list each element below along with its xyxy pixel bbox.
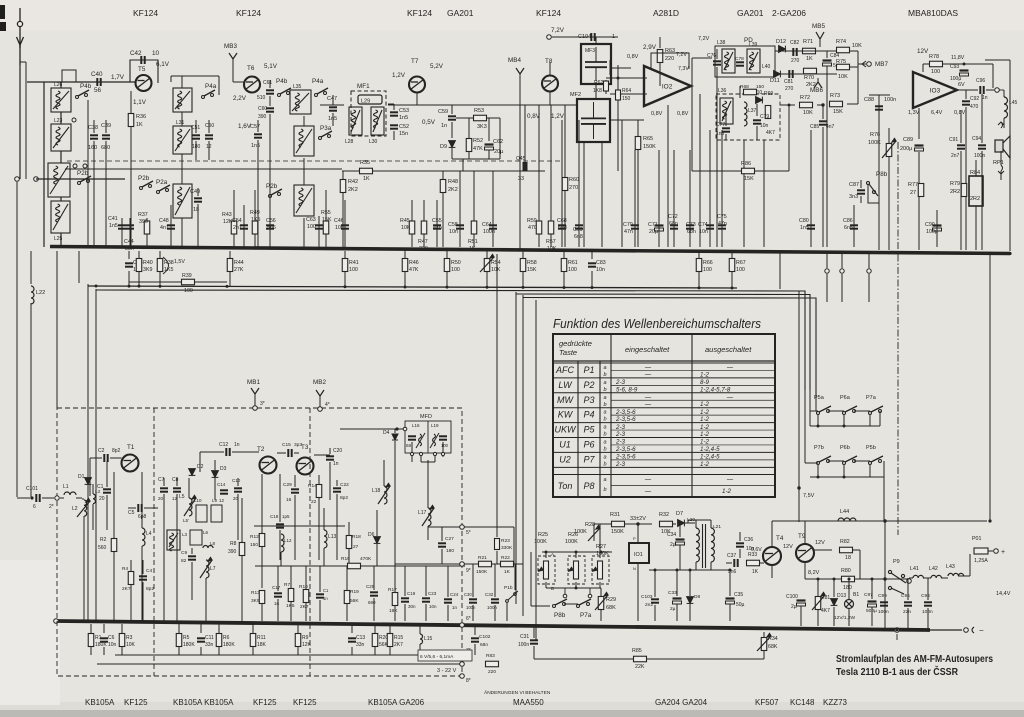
svg-text:2K7: 2K7 — [122, 586, 131, 592]
svg-text:C61: C61 — [263, 80, 272, 86]
capacitor C1 — [103, 489, 111, 492]
svg-text:180: 180 — [446, 548, 454, 554]
resistor R12 — [259, 534, 265, 547]
svg-text:P7: P7 — [583, 454, 595, 464]
svg-text:33: 33 — [518, 176, 524, 182]
svg-text:D7: D7 — [676, 511, 683, 517]
trimmer circles — [72, 118, 76, 122]
svg-text:C9: C9 — [181, 550, 187, 556]
svg-text:4K7: 4K7 — [766, 130, 775, 136]
wires ratio det — [739, 86, 741, 98]
capacitor C51 — [192, 135, 200, 138]
svg-text:C87: C87 — [849, 182, 859, 188]
svg-text:C99: C99 — [878, 593, 887, 599]
svg-text:5-6, 8-9: 5-6, 8-9 — [616, 386, 638, 393]
svg-text:—: — — [644, 394, 652, 401]
coil L3 box — [167, 530, 180, 551]
svg-text:R44: R44 — [234, 260, 244, 266]
capacitor C62 — [488, 118, 490, 141]
svg-text:100K: 100K — [868, 140, 881, 146]
svg-text:C100: C100 — [786, 594, 798, 600]
svg-text:R42: R42 — [348, 179, 358, 185]
coil L4 — [141, 472, 143, 528]
svg-text:P2b: P2b — [266, 183, 278, 190]
svg-text:2*: 2* — [49, 504, 54, 510]
svg-text:L1: L1 — [63, 484, 69, 490]
svg-text:C72: C72 — [668, 214, 678, 220]
svg-text:22n: 22n — [903, 609, 911, 615]
svg-text:a: a — [603, 477, 606, 483]
resistor R42 — [342, 171, 344, 247]
capacitor C59 — [451, 105, 453, 114]
svg-text:T1: T1 — [127, 444, 135, 451]
svg-text:P7a: P7a — [580, 612, 592, 619]
svg-text:5,1V: 5,1V — [264, 63, 278, 70]
svg-text:1-2: 1-2 — [700, 431, 710, 438]
svg-text:R23: R23 — [501, 538, 510, 544]
svg-text:100: 100 — [184, 288, 193, 294]
resistor R2 — [113, 472, 115, 538]
coil L38 box — [722, 49, 735, 73]
capacitor C102 — [474, 624, 476, 635]
svg-text:a: a — [603, 380, 606, 386]
svg-text:100: 100 — [568, 267, 577, 273]
MFD bottom pins — [411, 442, 413, 462]
coil L43 — [941, 577, 948, 579]
svg-text:C74: C74 — [698, 222, 708, 228]
wire 5* rail — [428, 526, 514, 528]
svg-text:R25: R25 — [538, 532, 548, 538]
svg-text:3n3: 3n3 — [849, 194, 858, 200]
svg-text:100n: 100n — [483, 229, 495, 235]
svg-text:C2: C2 — [98, 448, 105, 454]
op-amp IO2 A281D — [644, 66, 691, 106]
svg-text:L2: L2 — [72, 506, 78, 512]
resistor R86 — [692, 170, 789, 172]
resistor R7 — [288, 589, 294, 602]
svg-text:KF124: KF124 — [236, 8, 261, 18]
resistor R6 — [218, 624, 220, 633]
svg-text:P3: P3 — [583, 395, 594, 405]
thermal coupling arc — [163, 257, 169, 274]
svg-text:IO3: IO3 — [930, 88, 941, 95]
wire MF2 out — [610, 119, 644, 121]
svg-text:0,5V: 0,5V — [422, 119, 436, 126]
diode D3 — [212, 471, 219, 478]
upper ground bus — [50, 247, 1010, 254]
coil L40 box — [747, 49, 760, 73]
wire antenna down — [19, 65, 21, 179]
svg-text:10K: 10K — [852, 43, 862, 49]
capacitor C31 — [533, 626, 535, 638]
wire 9* rail — [395, 563, 523, 565]
svg-text:D9: D9 — [440, 144, 447, 150]
svg-text:T7: T7 — [411, 58, 419, 65]
capacitor C12 — [226, 448, 229, 456]
svg-text:180K: 180K — [183, 642, 195, 648]
svg-text:2µ: 2µ — [791, 604, 797, 610]
svg-text:R57: R57 — [546, 239, 556, 245]
svg-text:C52: C52 — [399, 124, 409, 130]
svg-text:R12: R12 — [250, 534, 259, 540]
svg-text:1n: 1n — [333, 461, 339, 467]
svg-text:b: b — [603, 417, 606, 423]
svg-text:P4b: P4b — [80, 83, 92, 90]
svg-text:160: 160 — [88, 145, 97, 151]
svg-text:R7: R7 — [284, 582, 290, 588]
svg-text:C19: C19 — [407, 591, 416, 596]
svg-text:180K: 180K — [95, 642, 107, 648]
svg-text:MB1: MB1 — [247, 379, 260, 386]
transistor T8 — [542, 76, 558, 92]
svg-text:C1: C1 — [323, 588, 329, 593]
svg-text:100: 100 — [307, 224, 316, 230]
svg-text:12V: 12V — [783, 544, 793, 550]
svg-text:C92: C92 — [970, 96, 979, 102]
svg-text:R27: R27 — [596, 544, 606, 550]
svg-text:220: 220 — [665, 56, 674, 62]
resistor R13 — [259, 591, 265, 604]
capacitor C83 — [591, 251, 593, 259]
svg-text:T8: T8 — [545, 58, 553, 65]
svg-text:A281D: A281D — [653, 8, 679, 18]
svg-text:100: 100 — [349, 267, 358, 273]
svg-text:C73: C73 — [686, 222, 696, 228]
coil L30 box — [371, 107, 384, 135]
svg-text:KC148: KC148 — [790, 698, 815, 707]
capacitor C37 — [734, 559, 737, 567]
connector MB7 — [867, 62, 872, 67]
svg-text:47K: 47K — [409, 267, 419, 273]
svg-text:C25: C25 — [366, 584, 375, 589]
svg-text:R36: R36 — [136, 114, 146, 120]
svg-text:eingeschaltet: eingeschaltet — [625, 345, 670, 354]
svg-text:a: a — [603, 410, 606, 416]
resistor R85 — [634, 656, 647, 662]
svg-text:P6b: P6b — [840, 445, 850, 451]
resistor R19 — [344, 591, 350, 604]
svg-text:R74: R74 — [836, 39, 846, 45]
svg-text:50µ: 50µ — [736, 602, 745, 608]
capacitor C20 — [326, 456, 334, 459]
svg-text:L13: L13 — [328, 534, 337, 540]
svg-text:12V: 12V — [917, 48, 929, 55]
resistor R69 — [765, 106, 771, 119]
capacitor C5 — [138, 504, 141, 512]
svg-text:C63: C63 — [306, 217, 316, 223]
svg-text:C15: C15 — [282, 442, 291, 448]
svg-text:MBA810DAS: MBA810DAS — [908, 8, 958, 18]
svg-text:10n: 10n — [596, 267, 605, 273]
resistor R43 — [233, 190, 235, 247]
capacitor C44 — [129, 218, 131, 247]
svg-text:1K: 1K — [504, 569, 511, 575]
svg-text:C38: C38 — [88, 125, 98, 131]
resistor R35 — [360, 168, 373, 174]
main vertical x885 — [884, 521, 886, 630]
coil L44 — [838, 518, 856, 521]
wire line y171 agc — [65, 168, 342, 170]
svg-text:15K: 15K — [744, 176, 754, 182]
svg-text:1,1V: 1,1V — [133, 99, 147, 106]
table Ton row — [553, 466, 775, 468]
svg-text:N: N — [633, 566, 636, 571]
wire io2 in — [606, 77, 647, 79]
svg-text:R29: R29 — [606, 597, 616, 603]
capacitor C18 — [276, 524, 284, 527]
svg-text:68K: 68K — [606, 605, 616, 611]
svg-text:KB105A KB105A: KB105A KB105A — [173, 698, 234, 707]
coils L10 L9 — [196, 505, 207, 522]
svg-text:22K: 22K — [635, 664, 645, 670]
svg-text:KB105A: KB105A — [85, 698, 115, 707]
svg-text:KF125: KF125 — [124, 698, 148, 707]
svg-text:R49: R49 — [250, 210, 260, 216]
svg-text:1-2: 1-2 — [700, 439, 710, 446]
svg-text:R66: R66 — [703, 260, 713, 266]
svg-text:C42: C42 — [130, 50, 142, 57]
resistor R38 — [159, 251, 161, 259]
svg-text:Ton: Ton — [558, 481, 573, 491]
resistor R59 — [538, 105, 540, 247]
svg-text:b: b — [603, 432, 606, 438]
bottom ground bus — [56, 621, 930, 630]
svg-text:—: — — [726, 476, 734, 483]
resistor R60 — [564, 105, 566, 247]
coil L22 — [30, 251, 32, 284]
svg-text:P7b: P7b — [814, 445, 824, 451]
svg-text:P9: P9 — [893, 559, 900, 565]
detector loop bottom — [452, 158, 500, 160]
svg-text:P4: P4 — [583, 410, 594, 420]
capacitor C36 — [736, 543, 744, 546]
svg-text:MAA550: MAA550 — [513, 698, 544, 707]
resistor R71 — [803, 48, 816, 54]
svg-text:U1: U1 — [559, 440, 571, 450]
svg-text:—: — — [644, 401, 652, 408]
svg-text:Stromlaufplan des AM-FM-Autosu: Stromlaufplan des AM-FM-Autosupers — [836, 653, 993, 665]
svg-text:1-2: 1-2 — [700, 371, 710, 378]
svg-text:R37: R37 — [138, 212, 148, 218]
svg-text:2-3: 2-3 — [615, 431, 626, 438]
coil L6 L8 — [190, 530, 202, 545]
coil L5 — [189, 498, 192, 516]
capacitor C54 — [243, 205, 245, 247]
mechanical coupling dashed line — [67, 160, 560, 162]
svg-text:ÄNDERUNGEN VI BEHALTEN: ÄNDERUNGEN VI BEHALTEN — [484, 689, 551, 696]
svg-text:C95: C95 — [901, 593, 910, 599]
svg-text:R54: R54 — [491, 260, 501, 266]
wire left drop to bus — [43, 82, 45, 247]
signal wire MF1 to MF2 — [388, 104, 577, 106]
svg-text:390: 390 — [258, 114, 267, 120]
capacitor C42 feedback loop — [130, 60, 158, 83]
capacitor C13 — [351, 624, 353, 633]
resistor R47 — [423, 200, 425, 247]
svg-text:D13: D13 — [837, 593, 846, 599]
svg-text:—: — — [726, 394, 734, 401]
svg-text:a: a — [603, 365, 606, 371]
svg-text:P01: P01 — [972, 536, 981, 542]
left vertical 79 — [78, 251, 80, 283]
svg-text:1n: 1n — [323, 596, 328, 601]
svg-text:8-9: 8-9 — [700, 379, 710, 386]
coil L35 box — [290, 90, 311, 114]
coil L18 — [384, 486, 387, 504]
svg-text:C6: C6 — [108, 635, 115, 641]
svg-text:R80: R80 — [841, 568, 851, 574]
svg-text:KW: KW — [558, 410, 574, 420]
left vertical 96 — [95, 289, 97, 621]
svg-text:11,8V: 11,8V — [951, 55, 965, 61]
coil L23 box — [51, 124, 71, 151]
svg-text:150K: 150K — [611, 529, 624, 535]
svg-text:D12: D12 — [776, 39, 786, 45]
svg-text:6V: 6V — [958, 82, 965, 88]
svg-text:100K: 100K — [534, 539, 547, 545]
capacitor C19b — [316, 594, 324, 597]
svg-text:0,8V: 0,8V — [954, 110, 966, 116]
svg-text:R55: R55 — [321, 210, 331, 216]
svg-text:L44: L44 — [840, 509, 849, 515]
diode D7 — [678, 520, 685, 527]
svg-text:L12: L12 — [284, 538, 292, 543]
svg-text:MFD: MFD — [420, 414, 432, 420]
svg-text:R17: R17 — [388, 587, 397, 593]
svg-text:C83: C83 — [596, 260, 606, 266]
resistor R3 — [121, 624, 123, 633]
resistor R15 — [389, 624, 391, 633]
svg-text:68n: 68n — [669, 221, 678, 227]
io2 feedback wire — [651, 53, 689, 69]
svg-text:8p2: 8p2 — [146, 586, 154, 592]
svg-text:4n7: 4n7 — [826, 124, 835, 130]
capacitor C27 — [441, 527, 443, 541]
capacitor C82 — [793, 48, 796, 56]
svg-text:R53: R53 — [474, 108, 484, 114]
resistor R11 — [252, 624, 254, 633]
bottom bus start node — [54, 619, 59, 624]
svg-text:18K: 18K — [257, 642, 267, 648]
resistor C90 — [936, 210, 938, 247]
svg-text:P7a: P7a — [866, 395, 877, 401]
transistor T2 — [260, 457, 277, 474]
svg-text:R4: R4 — [122, 566, 128, 572]
capacitor C17 — [274, 593, 282, 596]
svg-text:MF3: MF3 — [585, 48, 595, 54]
capacitor C88 — [878, 95, 880, 250]
svg-text:C34: C34 — [667, 532, 676, 538]
svg-text:a: a — [603, 425, 606, 431]
svg-text:R16: R16 — [341, 556, 350, 562]
svg-text:27: 27 — [353, 544, 359, 550]
svg-text:R79: R79 — [950, 181, 960, 187]
junction dots mid bus — [95, 285, 98, 288]
amp IC IO1 MAA550 — [629, 543, 649, 563]
svg-text:15K: 15K — [322, 217, 332, 223]
coil L32 box — [173, 88, 192, 112]
resistor R50 — [446, 251, 448, 259]
svg-text:100n: 100n — [466, 605, 476, 610]
svg-text:R22: R22 — [501, 555, 510, 561]
svg-text:8,2V: 8,2V — [808, 570, 820, 576]
capacitor C101 — [36, 494, 39, 502]
capacitor C19 — [401, 598, 409, 601]
resistor R74 — [837, 47, 850, 53]
svg-text:470: 470 — [528, 225, 537, 231]
svg-text:1: 1 — [612, 34, 615, 40]
svg-text:150: 150 — [622, 96, 631, 102]
svg-text:R61: R61 — [568, 260, 578, 266]
capacitor C84 — [823, 61, 832, 67]
capacitor C74 — [709, 130, 711, 247]
svg-text:b: b — [603, 372, 606, 378]
capacitor C103 — [651, 599, 659, 602]
svg-text:—: — — [644, 371, 652, 378]
svg-text:R14: R14 — [308, 483, 317, 489]
resistor R83 — [475, 663, 512, 665]
svg-text:47n: 47n — [718, 221, 727, 227]
capacitor C24 — [444, 599, 452, 602]
svg-text:KF124: KF124 — [133, 8, 158, 18]
capacitor C14 — [220, 490, 228, 493]
capacitor C10 — [234, 488, 242, 491]
svg-text:2n2: 2n2 — [645, 602, 653, 608]
svg-text:T3: T3 — [301, 444, 309, 451]
transistor T9 — [796, 544, 814, 562]
svg-text:R71: R71 — [803, 39, 813, 45]
svg-text:L18: L18 — [372, 488, 381, 494]
coil L2 tuning — [84, 500, 87, 516]
svg-text:C81: C81 — [784, 79, 793, 85]
svg-text:KF124: KF124 — [536, 8, 561, 18]
svg-text:C33: C33 — [668, 590, 677, 596]
svg-text:1n: 1n — [234, 442, 240, 448]
capacitor C64 — [492, 171, 494, 247]
svg-text:1-2: 1-2 — [700, 416, 710, 423]
resistor R73 — [830, 101, 843, 107]
svg-text:1K: 1K — [363, 176, 370, 182]
svg-text:R73: R73 — [830, 93, 840, 99]
svg-text:R76: R76 — [870, 132, 880, 138]
svg-text:6: 6 — [33, 504, 36, 510]
svg-text:20µ: 20µ — [649, 229, 658, 235]
svg-text:—: — — [644, 476, 652, 483]
svg-text:L4: L4 — [146, 531, 152, 537]
svg-text:15n: 15n — [399, 131, 408, 137]
svg-text:3 - 22 V: 3 - 22 V — [437, 668, 457, 674]
svg-text:P: P — [633, 536, 636, 541]
svg-text:gedrückte: gedrückte — [559, 339, 592, 348]
svg-text:20µ: 20µ — [494, 149, 504, 155]
svg-text:R21: R21 — [478, 555, 487, 561]
switch P4b — [76, 90, 90, 99]
svg-text:R60: R60 — [569, 177, 579, 183]
svg-text:0,8V: 0,8V — [627, 54, 639, 60]
diode D6 — [374, 537, 381, 544]
svg-text:5,2V: 5,2V — [430, 63, 444, 70]
resistor R40 — [138, 251, 140, 259]
resistor R75 — [837, 64, 850, 70]
svg-text:0,8V: 0,8V — [677, 111, 689, 117]
svg-text:KF125: KF125 — [253, 698, 277, 707]
capacitor C104 — [591, 33, 594, 41]
svg-text:C86: C86 — [843, 218, 853, 224]
svg-text:2,9V: 2,9V — [643, 44, 657, 51]
svg-text:T5: T5 — [138, 66, 146, 73]
resistor R79 — [961, 184, 967, 197]
resistor R44 — [229, 251, 231, 259]
